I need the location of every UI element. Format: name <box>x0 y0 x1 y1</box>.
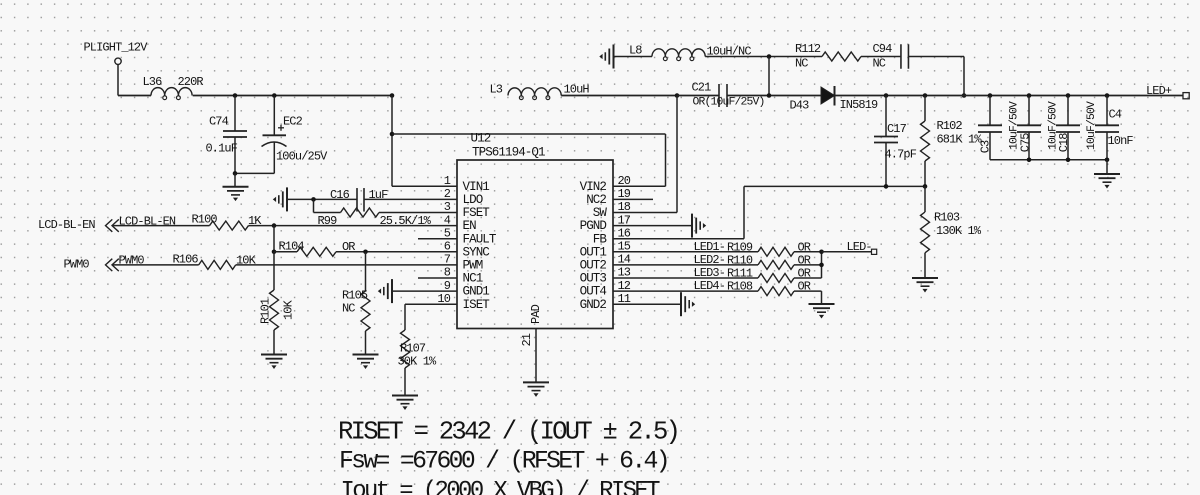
svg-text:R101: R101 <box>259 298 273 324</box>
svg-text:R112: R112 <box>795 42 821 56</box>
wire pin7 <box>236 264 457 266</box>
svg-text:R100: R100 <box>192 213 218 227</box>
formula line 2 <box>339 448 668 476</box>
ground <box>1094 160 1120 188</box>
node bus-R102 <box>923 93 928 98</box>
svg-text:10K: 10K <box>282 299 296 320</box>
node LED1 <box>819 250 824 255</box>
wire <box>404 368 406 396</box>
svg-text:R104: R104 <box>279 240 305 254</box>
wire <box>794 290 822 292</box>
ground AGND-C16 <box>274 187 287 211</box>
node R104-left <box>272 250 277 255</box>
svg-text:PLIGHT_12V: PLIGHT_12V <box>84 41 149 55</box>
svg-text:R110: R110 <box>727 253 753 267</box>
wire pin8 <box>418 277 457 279</box>
wire <box>561 95 677 97</box>
svg-text:TPS61194-Q1: TPS61194-Q1 <box>472 146 545 160</box>
wire LED- vertical <box>821 252 823 278</box>
formula line 3 <box>341 478 661 495</box>
svg-text:30K 1%: 30K 1% <box>398 355 438 369</box>
capacitor C3 <box>978 93 1002 160</box>
node L8-R112 <box>767 54 772 59</box>
wire pin19 <box>613 198 653 200</box>
svg-text:LED-: LED- <box>847 240 872 254</box>
svg-text:C3: C3 <box>979 140 993 153</box>
svg-text:NC2: NC2 <box>586 193 606 207</box>
port LCD-BL-EN <box>38 215 176 233</box>
svg-text:OR(10uF/25V): OR(10uF/25V) <box>693 97 765 109</box>
svg-text:21: 21 <box>520 333 534 346</box>
svg-text:FAULT: FAULT <box>463 232 497 246</box>
resistor R105 <box>342 252 370 355</box>
ground <box>912 278 938 292</box>
wire <box>794 264 822 266</box>
label C18 value <box>1086 101 1098 150</box>
wire <box>274 251 297 253</box>
wire <box>821 291 823 304</box>
resistor R101 <box>259 252 296 355</box>
svg-text:LED1-: LED1- <box>694 240 726 254</box>
ground <box>223 173 249 200</box>
node bus-L8 <box>767 93 772 98</box>
capacitor C75 <box>1017 93 1041 160</box>
ground <box>809 304 835 318</box>
svg-text:130K 1%: 130K 1% <box>936 224 982 238</box>
svg-text:LED4-: LED4- <box>694 279 726 293</box>
svg-text:GND1: GND1 <box>463 285 490 299</box>
svg-text:C75: C75 <box>1019 133 1033 153</box>
svg-text:C17: C17 <box>887 122 907 136</box>
svg-text:OUT3: OUT3 <box>580 272 607 286</box>
resistor R106 <box>173 253 257 270</box>
ground <box>523 382 549 396</box>
svg-text:LCD-BL-EN: LCD-BL-EN <box>38 218 95 232</box>
node bus-C74 <box>233 93 238 98</box>
svg-text:NC: NC <box>795 57 808 71</box>
wire pin4 <box>249 225 458 227</box>
node EN <box>272 223 277 228</box>
svg-text:PGND: PGND <box>580 219 607 233</box>
resistor R100 <box>192 213 263 231</box>
wire <box>768 57 770 96</box>
wire <box>235 172 274 174</box>
svg-text:220R: 220R <box>178 75 204 89</box>
wire <box>705 56 822 58</box>
wire pin2 <box>364 198 457 200</box>
resistor R110 <box>694 253 811 270</box>
svg-text:4.7pF: 4.7pF <box>885 148 917 162</box>
node <box>1066 158 1071 163</box>
label C3 value <box>1009 101 1021 150</box>
terminal LED- <box>822 240 877 254</box>
node bus-SW <box>675 93 680 98</box>
wire <box>391 96 393 187</box>
capacitor C18 <box>1056 93 1080 160</box>
wire R111-row <box>613 277 758 279</box>
svg-text:10nF: 10nF <box>1108 134 1134 148</box>
svg-text:EN: EN <box>463 219 477 233</box>
wire <box>614 56 652 58</box>
ground GND2 <box>613 292 694 316</box>
wire R109-row <box>613 251 758 253</box>
node bus-C94 <box>962 93 967 98</box>
node LED2 <box>819 263 824 268</box>
svg-text:0.1uF: 0.1uF <box>206 142 238 156</box>
svg-text:D43: D43 <box>790 99 810 113</box>
wire cap-bank bottom <box>990 159 1107 161</box>
svg-text:RISET = 2342 / (IOUT ± 2.5): RISET = 2342 / (IOUT ± 2.5) <box>338 418 678 447</box>
resistor R111 <box>694 266 811 283</box>
wire <box>794 251 822 253</box>
svg-text:NC1: NC1 <box>463 272 483 286</box>
wire <box>835 95 1184 97</box>
label C75 <box>1019 133 1033 153</box>
node LDO <box>311 197 316 202</box>
wire pin9 <box>392 290 457 292</box>
svg-text:PWM0: PWM0 <box>64 258 90 272</box>
resistor R102 <box>921 96 983 187</box>
wire pin3 <box>379 212 457 214</box>
svg-text:NC: NC <box>873 57 886 71</box>
pin PAD 21 <box>520 304 543 382</box>
ground <box>392 396 418 410</box>
svg-text:C18: C18 <box>1057 133 1071 153</box>
svg-text:R109: R109 <box>727 240 753 254</box>
node FB-C17 <box>884 184 889 189</box>
svg-text:R105: R105 <box>342 289 368 303</box>
svg-text:LED2-: LED2- <box>694 253 726 267</box>
svg-text:R111: R111 <box>727 267 753 281</box>
resistor R107 <box>398 330 438 369</box>
capacitor C16 <box>330 188 388 212</box>
wire <box>909 57 965 96</box>
capacitor C17 <box>874 96 917 187</box>
resistor R99 <box>318 208 432 228</box>
node bus-EC2 <box>272 93 277 98</box>
svg-text:SYNC: SYNC <box>463 245 490 259</box>
label C3 <box>979 140 993 153</box>
wire <box>113 225 210 227</box>
resistor R112 <box>795 42 861 71</box>
svg-text:VIN1: VIN1 <box>463 180 490 194</box>
ground AGND-GND1 <box>379 279 392 303</box>
wire <box>313 199 315 212</box>
wire R110-row <box>613 264 758 266</box>
svg-text:EC2: EC2 <box>283 115 303 129</box>
wire <box>861 56 901 58</box>
node VIN2-tap <box>390 132 395 137</box>
power port PLIGHT_12V <box>84 41 149 65</box>
node bus-VIN <box>390 93 395 98</box>
op-amp U12 TPS61194-Q1 <box>437 132 630 329</box>
svg-text:C16: C16 <box>330 188 350 202</box>
svg-text:U12: U12 <box>471 132 491 146</box>
capacitor EC2 <box>262 96 329 174</box>
resistor R108 <box>694 279 811 296</box>
resistor R103 <box>921 186 982 278</box>
ground PGND <box>613 214 705 238</box>
resistor R109 <box>694 240 811 256</box>
label C75 value <box>1048 101 1060 150</box>
wire <box>288 198 357 200</box>
svg-text:GND2: GND2 <box>580 298 607 312</box>
svg-text:R106: R106 <box>173 253 199 267</box>
svg-text:20: 20 <box>618 174 631 188</box>
svg-text:R107: R107 <box>400 342 426 356</box>
terminal LED+ <box>1146 84 1189 99</box>
svg-text:PAD: PAD <box>529 304 543 324</box>
svg-text:OUT4: OUT4 <box>580 285 607 299</box>
svg-text:L8: L8 <box>629 44 642 58</box>
svg-text:IN5819: IN5819 <box>840 98 879 112</box>
svg-text:VIN2: VIN2 <box>580 180 607 194</box>
wire <box>273 226 275 252</box>
wire pin10 <box>405 304 457 330</box>
svg-text:FSET: FSET <box>463 206 491 220</box>
svg-text:C74: C74 <box>209 115 229 129</box>
resistor R104 <box>279 240 356 257</box>
node <box>1105 158 1110 163</box>
node C74-EC2 <box>233 171 238 176</box>
capacitor C74 <box>206 96 248 174</box>
formula line 1 <box>338 418 678 447</box>
svg-text:LCD-BL-EN: LCD-BL-EN <box>119 215 176 229</box>
node <box>1027 158 1032 163</box>
svg-text:PWM: PWM <box>463 259 483 273</box>
wire SW <box>613 96 677 213</box>
wire FB <box>613 186 925 238</box>
ground <box>353 355 379 369</box>
svg-text:100u/25V: 100u/25V <box>276 150 328 164</box>
svg-text:ISET: ISET <box>463 298 491 312</box>
capacitor C94 <box>873 42 909 71</box>
svg-text:R108: R108 <box>727 280 753 294</box>
svg-text:L36: L36 <box>143 75 163 89</box>
svg-text:1: 1 <box>444 174 451 188</box>
wire <box>794 277 822 279</box>
wire pin5 <box>418 238 457 240</box>
ground-left L8 <box>600 45 613 69</box>
node R104-right <box>363 250 368 255</box>
wire pin6 <box>336 251 457 253</box>
svg-text:OUT1: OUT1 <box>580 245 607 259</box>
node bus-C17 <box>884 93 889 98</box>
svg-text:C94: C94 <box>873 42 893 56</box>
svg-text:Fsw= =67600 / (RFSET + 6.4): Fsw= =67600 / (RFSET + 6.4) <box>339 448 668 476</box>
wire pin1 <box>392 185 457 187</box>
svg-text:FB: FB <box>593 232 608 246</box>
svg-text:LDO: LDO <box>463 193 483 207</box>
svg-text:NC: NC <box>342 302 355 316</box>
svg-text:SW: SW <box>593 206 608 220</box>
svg-text:R103: R103 <box>934 211 960 225</box>
inductor L36 <box>143 75 204 100</box>
capacitor C21 <box>677 81 821 109</box>
wire <box>314 212 341 214</box>
wire VIN2 <box>392 134 666 186</box>
svg-text:OUT2: OUT2 <box>580 259 607 273</box>
wire <box>113 264 199 266</box>
wire <box>118 65 151 96</box>
svg-text:L3: L3 <box>490 83 503 97</box>
label C18 <box>1057 133 1071 153</box>
inductor L8 <box>629 44 751 61</box>
ground <box>261 355 287 369</box>
svg-text:681K 1%: 681K 1% <box>937 133 983 147</box>
wire <box>193 95 392 97</box>
svg-text:C21: C21 <box>692 81 712 95</box>
wire R108-row <box>613 290 758 292</box>
diode D43 <box>790 86 879 113</box>
svg-text:LED+: LED+ <box>1146 84 1172 98</box>
svg-text:R102: R102 <box>937 119 963 133</box>
node FB-R102 <box>923 184 928 189</box>
svg-text:LED3-: LED3- <box>694 266 726 280</box>
svg-text:C4: C4 <box>1109 108 1122 122</box>
inductor L3 <box>490 83 590 100</box>
capacitor C4 <box>1095 93 1133 160</box>
port PWM0 <box>64 254 145 272</box>
svg-text:Iout = (2000 X VBG) / RISET: Iout = (2000 X VBG) / RISET <box>341 478 661 495</box>
svg-text:10uH: 10uH <box>564 83 590 97</box>
